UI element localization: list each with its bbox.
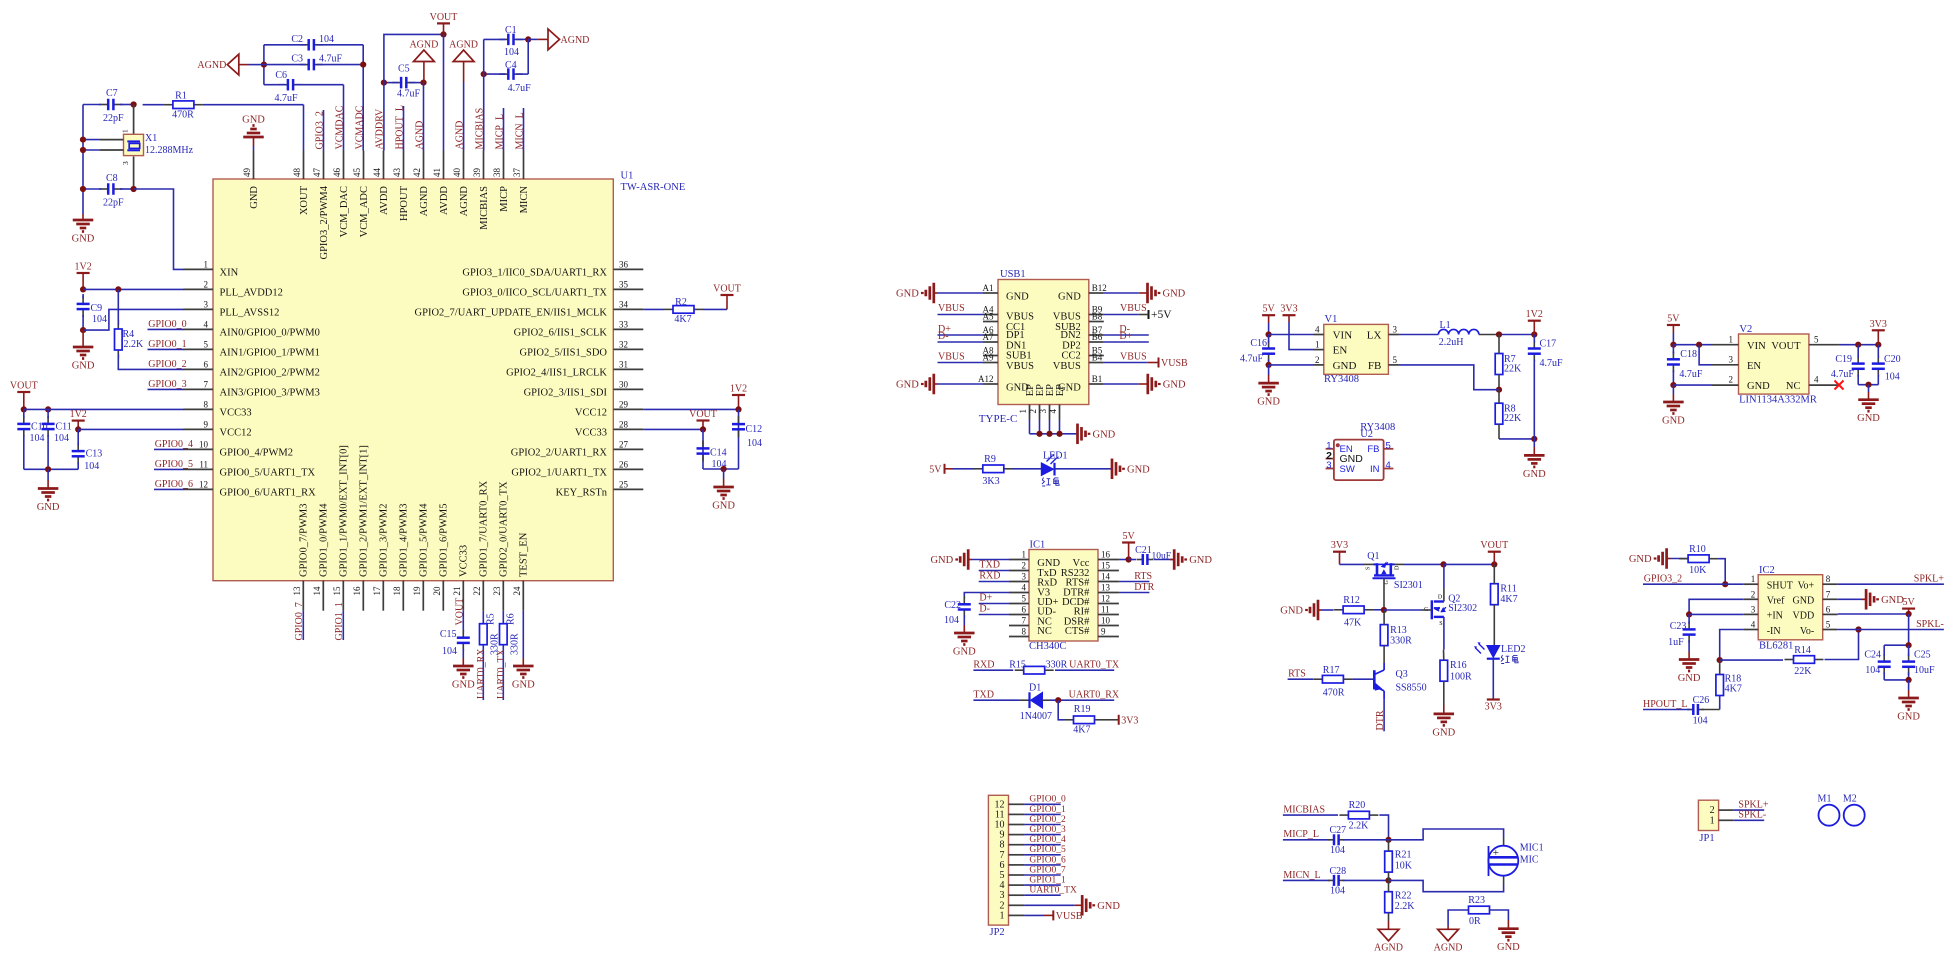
svg-text:47K: 47K <box>1344 618 1362 629</box>
svg-text:4.7uF: 4.7uF <box>319 54 343 65</box>
svg-text:MIC1: MIC1 <box>1520 843 1544 854</box>
svg-text:GND: GND <box>1006 292 1029 303</box>
svg-text:GPIO3_0/IICO_SCL/UART1_TX: GPIO3_0/IICO_SCL/UART1_TX <box>462 288 607 299</box>
svg-text:AIN2/GPIO0_2/PWM2: AIN2/GPIO0_2/PWM2 <box>220 368 320 379</box>
svg-text:10K: 10K <box>1689 565 1707 576</box>
svg-text:1: 1 <box>1000 910 1005 921</box>
svg-text:8: 8 <box>1826 574 1831 584</box>
svg-text:D-: D- <box>938 331 949 342</box>
svg-text:GPIO0_0: GPIO0_0 <box>148 319 186 330</box>
svg-text:GPIO1_3/PWM2: GPIO1_3/PWM2 <box>379 503 390 577</box>
svg-text:22K: 22K <box>1504 364 1522 375</box>
svg-text:2.2uH: 2.2uH <box>1439 337 1464 348</box>
svg-text:R13: R13 <box>1390 625 1407 636</box>
svg-text:5V: 5V <box>1902 597 1915 608</box>
svg-text:10K: 10K <box>1395 861 1413 872</box>
svg-text:D: D <box>1438 595 1443 601</box>
svg-text:SPKL-: SPKL- <box>1738 810 1766 821</box>
svg-text:USB1: USB1 <box>1000 269 1026 280</box>
svg-text:C3: C3 <box>291 54 303 65</box>
svg-text:B4: B4 <box>1092 353 1103 363</box>
svg-text:R20: R20 <box>1349 800 1366 811</box>
svg-text:-IN: -IN <box>1767 626 1781 637</box>
svg-text:G: G <box>1384 580 1390 585</box>
svg-text:GND: GND <box>1097 901 1120 912</box>
svg-text:35: 35 <box>619 279 629 289</box>
svg-text:GND: GND <box>1257 397 1280 408</box>
svg-text:MICBIAS: MICBIAS <box>1283 805 1325 816</box>
svg-text:5V: 5V <box>929 464 942 475</box>
svg-text:2: 2 <box>1315 355 1320 365</box>
svg-text:13: 13 <box>292 586 302 596</box>
svg-text:4: 4 <box>1386 460 1391 471</box>
svg-text:1: 1 <box>1022 550 1027 560</box>
svg-text:1: 1 <box>1751 574 1756 584</box>
svg-text:MICBIAS: MICBIAS <box>479 186 490 230</box>
svg-text:VUSB: VUSB <box>1056 911 1083 922</box>
svg-text:TYPE-C: TYPE-C <box>979 413 1018 425</box>
svg-text:GND: GND <box>896 289 919 300</box>
svg-text:22pF: 22pF <box>103 113 124 124</box>
svg-text:VCC33: VCC33 <box>459 545 470 577</box>
svg-text:VCMADC: VCMADC <box>354 105 365 149</box>
svg-text:UART0_TX: UART0_TX <box>1069 660 1120 671</box>
svg-text:1V2: 1V2 <box>74 262 91 273</box>
svg-text:NC: NC <box>1786 381 1801 392</box>
svg-text:22K: 22K <box>1504 413 1522 424</box>
svg-text:49: 49 <box>242 168 252 178</box>
svg-text:GPIO2_3/IIS1_SDI: GPIO2_3/IIS1_SDI <box>524 388 608 399</box>
svg-text:3: 3 <box>1729 354 1734 364</box>
svg-text:GND: GND <box>712 501 735 512</box>
svg-text:S: S <box>1439 621 1442 627</box>
svg-text:GPIO0_3: GPIO0_3 <box>1029 825 1066 835</box>
svg-text:GND: GND <box>1629 554 1652 565</box>
svg-text:4: 4 <box>1315 325 1320 335</box>
svg-text:AVDD: AVDD <box>379 186 390 215</box>
svg-text:CTS#: CTS# <box>1065 626 1090 637</box>
svg-text:15: 15 <box>332 586 342 596</box>
svg-text:46: 46 <box>332 168 342 178</box>
svg-text:VCC12: VCC12 <box>575 408 607 419</box>
svg-text:GPIO1_1/PWM0/EXT_INT[0]: GPIO1_1/PWM0/EXT_INT[0] <box>339 445 350 577</box>
svg-text:4.7uF: 4.7uF <box>1540 358 1564 369</box>
svg-text:GND: GND <box>953 647 976 658</box>
svg-text:V1: V1 <box>1325 314 1338 325</box>
svg-text:43: 43 <box>392 168 402 178</box>
svg-text:104: 104 <box>84 461 99 472</box>
svg-text:1V2: 1V2 <box>730 384 747 395</box>
svg-text:VCMDAC: VCMDAC <box>334 105 345 149</box>
svg-text:GND: GND <box>249 186 260 209</box>
svg-text:Q3: Q3 <box>1396 669 1408 680</box>
svg-text:VBUS: VBUS <box>1120 303 1147 314</box>
svg-text:VBUS: VBUS <box>1053 361 1081 372</box>
svg-text:3V3: 3V3 <box>1121 715 1138 726</box>
svg-text:GND: GND <box>72 234 95 245</box>
svg-text:RTS: RTS <box>1134 571 1152 582</box>
svg-text:C8: C8 <box>106 173 118 184</box>
svg-text:GPIO0_3: GPIO0_3 <box>148 379 186 390</box>
svg-text:22pF: 22pF <box>103 198 124 209</box>
svg-text:CC2: CC2 <box>1062 351 1081 362</box>
svg-text:HPOUT: HPOUT <box>399 185 410 221</box>
svg-text:14: 14 <box>1101 572 1111 582</box>
svg-text:LIN1134A332MR: LIN1134A332MR <box>1739 394 1817 405</box>
svg-text:1: 1 <box>204 259 209 269</box>
svg-text:AGND: AGND <box>449 40 478 51</box>
svg-text:C12: C12 <box>746 424 763 435</box>
svg-text:C6: C6 <box>275 70 287 81</box>
svg-text:GND: GND <box>1747 381 1770 392</box>
svg-text:26: 26 <box>619 459 629 469</box>
svg-text:3: 3 <box>204 299 209 309</box>
svg-text:1: 1 <box>1729 334 1734 344</box>
svg-text:BL6281: BL6281 <box>1759 641 1793 652</box>
svg-text:M1: M1 <box>1818 794 1832 805</box>
svg-text:1: 1 <box>1018 409 1028 414</box>
svg-text:R21: R21 <box>1395 850 1412 861</box>
svg-text:47: 47 <box>312 168 322 178</box>
svg-text:25: 25 <box>619 479 629 489</box>
svg-text:GND: GND <box>1127 464 1150 475</box>
svg-text:1N4007: 1N4007 <box>1020 711 1052 722</box>
svg-text:GPIO1_0/PWM4: GPIO1_0/PWM4 <box>319 503 330 577</box>
svg-text:R10: R10 <box>1689 544 1706 555</box>
svg-text:GPIO0_6/UART1_RX: GPIO0_6/UART1_RX <box>220 488 317 499</box>
svg-text:4K7: 4K7 <box>1073 725 1090 736</box>
svg-text:EN: EN <box>1333 345 1348 357</box>
svg-text:104: 104 <box>319 34 334 45</box>
svg-text:6: 6 <box>204 359 209 369</box>
svg-text:37: 37 <box>512 168 522 178</box>
svg-text:GPIO0_6: GPIO0_6 <box>155 479 193 490</box>
svg-text:RXD: RXD <box>973 660 994 671</box>
svg-text:39: 39 <box>472 168 482 178</box>
svg-text:MICN_L: MICN_L <box>1283 870 1320 881</box>
svg-text:PLL_AVSS12: PLL_AVSS12 <box>220 308 280 319</box>
svg-text:C18: C18 <box>1680 349 1697 360</box>
svg-text:12.288MHz: 12.288MHz <box>145 145 194 156</box>
svg-text:VBUS: VBUS <box>938 303 965 314</box>
svg-text:3: 3 <box>1393 325 1398 335</box>
svg-text:GPIO1_1: GPIO1_1 <box>1029 876 1066 886</box>
svg-text:16: 16 <box>1101 550 1111 560</box>
svg-text:34: 34 <box>619 299 629 309</box>
svg-text:VOUT: VOUT <box>454 598 465 626</box>
svg-text:33: 33 <box>619 319 629 329</box>
svg-text:LED1: LED1 <box>1043 451 1067 462</box>
svg-text:VCM_DAC: VCM_DAC <box>339 186 350 237</box>
svg-text:GND: GND <box>1881 595 1904 606</box>
svg-text:2: 2 <box>1729 375 1734 385</box>
svg-text:RTS: RTS <box>1288 669 1306 680</box>
svg-text:C4: C4 <box>505 60 517 71</box>
svg-text:3: 3 <box>1038 409 1048 414</box>
svg-text:AGND: AGND <box>454 121 465 150</box>
svg-text:U1: U1 <box>621 171 634 182</box>
svg-text:A12: A12 <box>978 374 994 384</box>
svg-text:3: 3 <box>1022 572 1027 582</box>
svg-text:AGND: AGND <box>409 40 438 51</box>
svg-text:R19: R19 <box>1074 704 1091 715</box>
svg-text:SHUT: SHUT <box>1767 581 1793 592</box>
svg-text:GPIO0_0: GPIO0_0 <box>1029 795 1066 805</box>
svg-text:7: 7 <box>204 379 209 389</box>
svg-text:AGND: AGND <box>459 186 470 217</box>
svg-text:3V3: 3V3 <box>1280 304 1297 315</box>
svg-text:27: 27 <box>619 439 629 449</box>
svg-text:2.2K: 2.2K <box>1395 901 1416 912</box>
svg-text:GND: GND <box>1497 942 1520 953</box>
svg-text:GND: GND <box>1678 673 1701 684</box>
svg-text:0R: 0R <box>1469 916 1481 927</box>
svg-text:10: 10 <box>199 439 209 449</box>
svg-text:MICP_L: MICP_L <box>494 114 505 150</box>
svg-text:V2: V2 <box>1739 324 1752 335</box>
svg-text:A5: A5 <box>983 312 994 322</box>
svg-text:3V3: 3V3 <box>1485 702 1502 713</box>
svg-text:104: 104 <box>442 646 457 657</box>
svg-text:C1: C1 <box>505 25 517 36</box>
svg-text:AVDDRV: AVDDRV <box>374 108 385 149</box>
svg-text:5: 5 <box>1814 334 1819 344</box>
svg-text:3K3: 3K3 <box>982 476 999 487</box>
svg-text:MIC: MIC <box>1520 855 1539 866</box>
svg-text:SPKL+: SPKL+ <box>1914 574 1944 585</box>
svg-text:2: 2 <box>1022 561 1027 571</box>
svg-text:7: 7 <box>1826 589 1831 599</box>
svg-text:4.7uF: 4.7uF <box>1679 369 1703 380</box>
svg-text:HPOUT_L: HPOUT_L <box>394 105 405 149</box>
svg-text:MICN_L: MICN_L <box>514 112 525 149</box>
svg-text:MICP: MICP <box>499 186 510 212</box>
svg-text:104: 104 <box>54 433 69 444</box>
svg-text:7: 7 <box>1022 616 1027 626</box>
svg-text:2: 2 <box>1028 409 1038 414</box>
svg-text:GND: GND <box>1093 429 1116 440</box>
svg-text:GPIO0_4: GPIO0_4 <box>155 439 193 450</box>
svg-text:GPIO2_1/UART1_TX: GPIO2_1/UART1_TX <box>511 468 607 479</box>
svg-text:4.7uF: 4.7uF <box>397 89 421 100</box>
svg-text:EP: EP <box>1055 384 1066 396</box>
svg-text:AIN3/GPIO0_3/PWM3: AIN3/GPIO0_3/PWM3 <box>220 388 320 399</box>
svg-text:C27: C27 <box>1330 825 1347 836</box>
svg-text:GND: GND <box>242 115 265 126</box>
svg-text:R14: R14 <box>1794 645 1811 656</box>
svg-text:AGND: AGND <box>419 186 430 217</box>
svg-text:GND: GND <box>452 680 475 691</box>
svg-text:GND: GND <box>1163 289 1186 300</box>
svg-text:TEST_EN: TEST_EN <box>519 532 530 577</box>
svg-text:C23: C23 <box>1670 621 1687 632</box>
svg-text:5: 5 <box>1386 441 1391 452</box>
svg-text:R17: R17 <box>1323 665 1340 676</box>
svg-text:XIN: XIN <box>220 268 239 279</box>
svg-text:TXD: TXD <box>973 690 994 701</box>
svg-text:SS8550: SS8550 <box>1396 683 1427 694</box>
svg-text:HPOUT_L: HPOUT_L <box>1643 699 1687 710</box>
svg-text:B1: B1 <box>1092 374 1103 384</box>
svg-text:42: 42 <box>412 168 422 177</box>
svg-text:30: 30 <box>619 379 629 389</box>
svg-text:C19: C19 <box>1835 354 1852 365</box>
svg-text:KEY_RSTn: KEY_RSTn <box>556 488 608 499</box>
svg-text:GPIO3_1/IIC0_SDA/UART1_RX: GPIO3_1/IIC0_SDA/UART1_RX <box>462 268 607 279</box>
svg-text:XOUT: XOUT <box>299 185 310 215</box>
svg-text:D-: D- <box>979 604 990 615</box>
svg-text:GND: GND <box>1523 469 1546 480</box>
svg-text:5V: 5V <box>1667 314 1680 325</box>
svg-text:AGND: AGND <box>1374 942 1403 953</box>
svg-text:104: 104 <box>1865 665 1880 676</box>
svg-text:C22: C22 <box>944 600 961 611</box>
svg-text:IC2: IC2 <box>1759 565 1775 576</box>
svg-text:C17: C17 <box>1540 339 1557 350</box>
svg-text:SPKL-: SPKL- <box>1916 619 1944 630</box>
svg-text:GPIO1_4/PWM3: GPIO1_4/PWM3 <box>399 503 410 577</box>
svg-text:D+: D+ <box>979 593 992 604</box>
svg-text:5: 5 <box>204 339 209 349</box>
svg-text:MICN: MICN <box>519 186 530 214</box>
svg-text:4K7: 4K7 <box>1725 684 1742 695</box>
svg-text:2: 2 <box>1751 589 1756 599</box>
svg-text:C11: C11 <box>56 422 72 433</box>
svg-text:GPIO1_6/PWM5: GPIO1_6/PWM5 <box>439 503 450 577</box>
svg-text:B12: B12 <box>1092 283 1107 293</box>
svg-text:A7: A7 <box>983 332 994 342</box>
svg-text:Q1: Q1 <box>1367 551 1379 562</box>
svg-text:4: 4 <box>204 319 209 329</box>
svg-text:28: 28 <box>619 419 629 429</box>
svg-text:330R: 330R <box>1046 660 1068 671</box>
svg-text:NC: NC <box>1037 626 1052 637</box>
svg-text:R1: R1 <box>175 91 187 102</box>
svg-text:C28: C28 <box>1330 866 1347 877</box>
svg-text:1: 1 <box>1315 340 1320 350</box>
svg-text:R12: R12 <box>1343 595 1360 606</box>
svg-text:VBUS: VBUS <box>938 352 965 363</box>
svg-text:GPIO2_7/UART_UPDATE_EN/IIS1_MC: GPIO2_7/UART_UPDATE_EN/IIS1_MCLK <box>415 308 608 319</box>
svg-text:VIN: VIN <box>1333 330 1353 342</box>
svg-text:SUB1: SUB1 <box>1006 351 1032 362</box>
svg-text:R22: R22 <box>1395 890 1412 901</box>
svg-text:5V: 5V <box>1122 531 1135 542</box>
svg-text:+: + <box>1493 847 1499 859</box>
svg-text:GPIO3_2: GPIO3_2 <box>314 111 325 149</box>
svg-text:16: 16 <box>352 586 362 596</box>
svg-text:R9: R9 <box>984 454 996 465</box>
svg-text:C9: C9 <box>91 303 103 314</box>
svg-text:C24: C24 <box>1864 650 1881 661</box>
svg-text:UART0_TX: UART0_TX <box>1029 886 1077 896</box>
svg-text:DTR: DTR <box>1134 582 1154 593</box>
svg-text:AGND: AGND <box>414 121 425 150</box>
svg-text:GPIO2_2/UART1_RX: GPIO2_2/UART1_RX <box>511 448 608 459</box>
svg-text:VBUS: VBUS <box>1120 352 1147 363</box>
svg-text:VUSB: VUSB <box>1161 358 1188 369</box>
svg-text:GPIO2_5/IIS1_SDO: GPIO2_5/IIS1_SDO <box>519 348 607 359</box>
svg-text:4.7uF: 4.7uF <box>1831 369 1855 380</box>
svg-text:GPIO0_7: GPIO0_7 <box>1029 865 1066 875</box>
svg-text:GND: GND <box>1280 606 1303 617</box>
svg-text:VOUT: VOUT <box>713 284 741 295</box>
svg-text:104: 104 <box>1885 372 1900 383</box>
svg-text:21: 21 <box>452 587 462 596</box>
svg-text:3: 3 <box>1326 460 1331 471</box>
svg-text:48: 48 <box>292 168 302 178</box>
svg-text:32: 32 <box>619 339 628 349</box>
svg-text:104: 104 <box>504 47 519 58</box>
svg-text:A1: A1 <box>983 283 994 293</box>
svg-text:VOUT: VOUT <box>10 381 38 392</box>
svg-text:SI2301: SI2301 <box>1394 580 1423 591</box>
svg-text:C21: C21 <box>1135 545 1152 556</box>
svg-text:R16: R16 <box>1450 660 1467 671</box>
svg-text:IC1: IC1 <box>1030 540 1046 551</box>
svg-text:GPIO0_6: GPIO0_6 <box>1029 855 1066 865</box>
svg-text:4.7uF: 4.7uF <box>508 83 531 94</box>
svg-text:GND: GND <box>1432 727 1455 738</box>
svg-text:29: 29 <box>619 399 629 409</box>
svg-text:1V2: 1V2 <box>70 409 87 420</box>
svg-text:Vref: Vref <box>1767 596 1785 607</box>
svg-text:C14: C14 <box>710 448 727 459</box>
svg-text:GPIO0_4: GPIO0_4 <box>1029 835 1066 845</box>
svg-text:Vo-: Vo- <box>1800 626 1814 637</box>
svg-text:22K: 22K <box>1794 666 1812 677</box>
svg-text:GPIO0_2: GPIO0_2 <box>148 359 186 370</box>
svg-text:TW-ASR-ONE: TW-ASR-ONE <box>621 182 686 193</box>
svg-text:R5: R5 <box>485 613 496 625</box>
svg-text:330R: 330R <box>509 633 520 655</box>
svg-text:MICP_L: MICP_L <box>1283 829 1319 840</box>
svg-text:VOUT: VOUT <box>1480 540 1508 551</box>
svg-text:GND: GND <box>1857 413 1880 424</box>
svg-text:C26: C26 <box>1693 695 1710 706</box>
svg-text:GND: GND <box>1333 360 1357 372</box>
svg-text:GND: GND <box>1163 380 1186 391</box>
svg-text:4.7uF: 4.7uF <box>274 93 298 104</box>
svg-text:GPIO2_4/IIS1_LRCLK: GPIO2_4/IIS1_LRCLK <box>506 368 607 379</box>
svg-text:B8: B8 <box>1092 312 1103 322</box>
svg-text:C15: C15 <box>440 629 457 640</box>
svg-text:GPIO1_2/PWM1/EXT_INT[1]: GPIO1_2/PWM1/EXT_INT[1] <box>359 445 370 577</box>
svg-text:24: 24 <box>512 586 522 596</box>
svg-text:DTR: DTR <box>1375 710 1386 730</box>
svg-text:AGND: AGND <box>197 60 226 71</box>
svg-text:GPIO0_5: GPIO0_5 <box>155 459 193 470</box>
svg-text:RXD: RXD <box>979 571 1000 582</box>
svg-text:6: 6 <box>1826 604 1831 614</box>
svg-text:6: 6 <box>1022 605 1027 615</box>
svg-text:12: 12 <box>199 479 208 489</box>
svg-text:4: 4 <box>1814 375 1819 385</box>
svg-text:4K7: 4K7 <box>1500 594 1517 605</box>
svg-text:41: 41 <box>432 168 442 177</box>
svg-text:1: 1 <box>1710 815 1715 826</box>
svg-text:D: D <box>1394 565 1400 570</box>
svg-text:20: 20 <box>432 586 442 596</box>
svg-text:A9: A9 <box>983 353 994 363</box>
svg-text:GPIO0_4/PWM2: GPIO0_4/PWM2 <box>220 448 294 459</box>
svg-text:VBUS: VBUS <box>1006 361 1034 372</box>
svg-text:C5: C5 <box>398 64 410 75</box>
svg-text:31: 31 <box>619 359 628 369</box>
svg-text:8: 8 <box>1022 627 1027 637</box>
svg-text:SW: SW <box>1340 464 1355 475</box>
svg-text:S: S <box>1366 567 1372 570</box>
